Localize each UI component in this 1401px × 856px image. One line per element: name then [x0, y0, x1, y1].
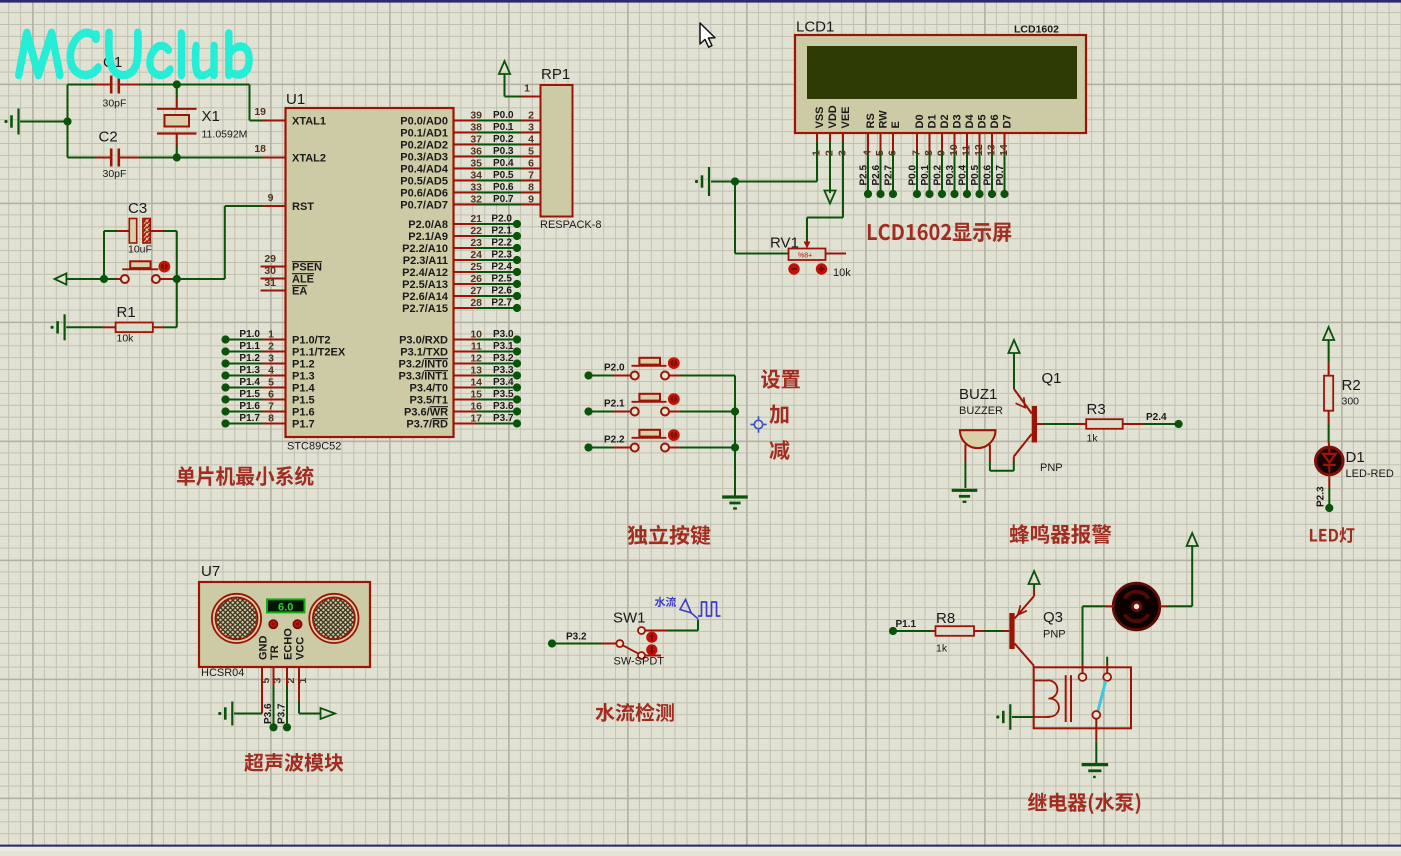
pin number 37 [470, 134, 482, 146]
pin name RST [292, 201, 314, 213]
pin number 34 [470, 170, 482, 182]
pulse generator 水流 (square wave icon) [680, 600, 721, 619]
pin number 38 [470, 122, 482, 134]
wire P2.3 [454, 259, 514, 261]
wire E to net P2.7 [892, 133, 894, 190]
value 1k (R3) [1087, 433, 1099, 445]
value 1k (R8) [936, 643, 948, 655]
svg-text:C2: C2 [99, 129, 118, 146]
wire P0.6 [454, 192, 541, 194]
pin name RS (LCD) [865, 113, 877, 128]
value 11.0592M [202, 129, 248, 141]
svg-text:P0.5/AD5: P0.5/AD5 [400, 176, 448, 188]
pin number 13 (LCD) [986, 144, 998, 156]
svg-text:P0.3/AD3: P0.3/AD3 [400, 152, 448, 164]
label PNP (Q1) [1040, 462, 1063, 474]
svg-text:P2.3: P2.3 [491, 250, 512, 261]
svg-text:ECHO: ECHO [283, 628, 295, 660]
wire D2 to net P0.2 [941, 133, 943, 190]
pin name P2.4/A12 [402, 267, 448, 279]
pin name P0.0/AD0 [400, 116, 448, 128]
node P2.4 [1175, 420, 1183, 428]
svg-text:D0: D0 [914, 114, 926, 128]
label RESPACK-8 [540, 219, 602, 231]
net label P1.0 [239, 329, 260, 340]
pin name VSS (LCD) [814, 106, 826, 128]
svg-text:10k: 10k [833, 267, 851, 279]
pin name D4 (LCD) [964, 114, 976, 129]
potentiometer RV1 [735, 182, 846, 261]
net label P2.0 (button) [604, 363, 625, 374]
svg-text:1k: 1k [936, 643, 948, 655]
svg-text:3: 3 [837, 150, 849, 156]
wire P3.2 to SW1 [552, 643, 616, 645]
svg-text:P3.2/: P3.2/ [399, 359, 425, 371]
net label P0.7 (LCD) [995, 164, 1006, 185]
svg-text:P1.7: P1.7 [239, 413, 260, 424]
svg-text:P0.5: P0.5 [493, 170, 514, 181]
svg-text:P3.5/T1: P3.5/T1 [410, 395, 449, 407]
svg-text:BUZZER: BUZZER [959, 405, 1003, 417]
pin name P3.7 [406, 419, 448, 431]
label BUZ1 [959, 386, 997, 403]
svg-text:P0.0: P0.0 [493, 110, 514, 121]
svg-text:EA: EA [292, 286, 307, 298]
pin number 2 [268, 341, 274, 353]
wire P1.1 [226, 351, 286, 353]
svg-text:VSS: VSS [814, 106, 826, 128]
wire reset to RST pin [177, 206, 263, 279]
pin name P0.5/AD5 [400, 176, 448, 188]
svg-text:D6: D6 [989, 114, 1001, 128]
pin number 35 [470, 158, 482, 170]
svg-text:6.0: 6.0 [278, 601, 293, 613]
relay contact bottom [1092, 711, 1100, 719]
svg-text:%8+: %8+ [798, 253, 812, 260]
svg-text:P0.0/AD0: P0.0/AD0 [400, 116, 448, 128]
node P2.6 (LCD) [876, 190, 884, 198]
pin number 10 (LCD) [948, 144, 960, 156]
svg-text:P2.2/A10: P2.2/A10 [402, 243, 448, 255]
svg-text:P0.4: P0.4 [958, 164, 969, 185]
svg-text:P2.3: P2.3 [1315, 486, 1326, 507]
wire P2.2 [454, 247, 514, 249]
pin number 25 [470, 261, 482, 273]
pin number 5 (LCD) [874, 150, 886, 156]
pin name PSEN [292, 262, 322, 274]
label BUZZER [959, 405, 1003, 417]
label PNP (Q3) [1043, 629, 1066, 641]
svg-text:HCSR04: HCSR04 [201, 667, 244, 679]
svg-text:PSEN: PSEN [292, 262, 322, 274]
pin number 9 (RP1) [528, 194, 534, 206]
svg-text:P1.5: P1.5 [292, 395, 315, 407]
svg-text:1: 1 [524, 83, 530, 95]
capacitor C2 [95, 149, 140, 167]
node P2.5 (LCD) [864, 190, 872, 198]
node P1.6 [221, 407, 229, 415]
svg-text:P3.3/: P3.3/ [399, 371, 425, 383]
svg-text:9: 9 [268, 192, 274, 204]
node P2.1 [513, 232, 521, 240]
section label 设置 [761, 369, 800, 389]
node P3.5 [513, 395, 521, 403]
pin XTAL1 stub [263, 117, 294, 125]
label R1 [117, 304, 136, 321]
wire P1.6 [226, 411, 286, 413]
net label P0.6 (LCD) [983, 164, 994, 185]
svg-text:P0.7/AD7: P0.7/AD7 [400, 200, 448, 212]
pin name P2.3/A11 [403, 255, 448, 267]
wire GND (U7) [234, 667, 262, 714]
svg-text:11: 11 [961, 145, 973, 156]
net label P1.3 [239, 365, 260, 376]
LCD1 screen [807, 46, 1077, 99]
svg-text:VDD: VDD [827, 105, 839, 128]
svg-text:P1.2: P1.2 [239, 353, 260, 364]
pin name P1.4 [292, 383, 316, 395]
net label P3.7 [493, 413, 514, 424]
node P2.3 [513, 256, 521, 264]
node junction X1 bottom [173, 153, 181, 161]
node junction reset right [173, 275, 181, 283]
svg-text:GND: GND [258, 636, 270, 661]
svg-text:P0.3: P0.3 [493, 146, 514, 157]
net label P1.7 [239, 413, 260, 424]
wire P2.4 [454, 271, 514, 273]
svg-text:SW1: SW1 [613, 610, 646, 627]
node P2.7 (LCD) [889, 190, 897, 198]
svg-text:XTAL1: XTAL1 [292, 116, 326, 128]
wire P3.6 [454, 411, 514, 413]
svg-text:VCC: VCC [295, 637, 307, 660]
svg-text:U7: U7 [201, 563, 220, 580]
net label P3.3 [493, 365, 514, 376]
node P3.7 [513, 419, 521, 427]
net label P0.4 (LCD) [958, 164, 969, 185]
svg-text:P0.1: P0.1 [493, 122, 514, 133]
pin number 23 [470, 237, 482, 249]
pin number 3 (U7) [272, 678, 284, 684]
svg-text:P1.7: P1.7 [292, 419, 315, 431]
svg-text:P0.7: P0.7 [493, 194, 514, 205]
net label P1.4 [239, 377, 260, 388]
node P3.6 [269, 723, 277, 731]
wire P0.4 [454, 168, 541, 170]
node P0.3 (LCD) [950, 190, 958, 198]
wire P3.1 [454, 351, 514, 353]
net label P3.2 [566, 632, 587, 643]
svg-text:P2.6: P2.6 [491, 286, 512, 297]
svg-text:30pF: 30pF [103, 98, 127, 110]
bottom window border line [0, 845, 1401, 847]
net label P0.0 [493, 110, 514, 121]
svg-text:P0.3: P0.3 [945, 164, 956, 185]
net label P0.6 [493, 182, 514, 193]
pin name P2.6/A14 [402, 291, 449, 303]
pin number 30 [264, 265, 276, 277]
section label LCD1602显示屏 [868, 223, 1011, 243]
svg-text:RD: RD [432, 419, 448, 431]
pin number 5 (U7) [260, 678, 272, 684]
pin XTAL2 stub [263, 157, 286, 159]
pin number 17 [470, 413, 482, 425]
pin name P1.5 [292, 395, 315, 407]
wire C3 right column [176, 231, 178, 279]
pin name D7 (LCD) [1002, 114, 1014, 128]
svg-text:P1.0/T2: P1.0/T2 [292, 335, 331, 347]
svg-text:12: 12 [973, 144, 985, 156]
LCD1 body [795, 35, 1086, 133]
pin number 2 (U7) [285, 678, 297, 684]
wire coil ground [1012, 716, 1034, 718]
pin name GND (U7) [258, 636, 270, 661]
svg-text:P3.0/RXD: P3.0/RXD [399, 335, 448, 347]
net label P3.4 [493, 377, 514, 388]
pin number 2 (LCD) [824, 150, 836, 156]
net label P3.1 [493, 341, 514, 352]
node P3.4 [513, 383, 521, 391]
node P0.6 (LCD) [988, 190, 996, 198]
net label P0.2 (LCD) [933, 164, 944, 185]
push button P2.0 [584, 358, 735, 380]
pin name P2.2/A10 [402, 243, 448, 255]
pin number 28 [470, 297, 482, 309]
svg-text:P0.1: P0.1 [920, 164, 931, 185]
wire D1 to P2.3 [1328, 475, 1330, 505]
pin name P1.7 [292, 419, 315, 431]
wire P1.7 [226, 423, 286, 425]
svg-text:ALE: ALE [292, 274, 314, 286]
pin PSEN stub [261, 266, 286, 268]
wire P3.3 [454, 375, 514, 377]
pin number 39 [470, 110, 482, 122]
pin number 27 [470, 285, 482, 297]
pin name P3.5 [410, 395, 449, 407]
wire TR to P3.6 [273, 667, 275, 724]
svg-text:D4: D4 [964, 114, 976, 129]
ground (LCD VSS) [695, 167, 709, 196]
svg-text:U1: U1 [286, 91, 305, 108]
svg-text:D2: D2 [939, 114, 951, 128]
net label P2.2 [491, 238, 512, 249]
label HCSR04 [201, 667, 244, 679]
section label 继电器(水泵) [1028, 792, 1140, 814]
wire P1.2 [226, 363, 286, 365]
svg-text:P2.5/A13: P2.5/A13 [402, 279, 448, 291]
node P3.1 [513, 347, 521, 355]
svg-text:6: 6 [887, 150, 899, 156]
svg-text:RS: RS [865, 113, 877, 128]
wire R2 to D1 [1328, 411, 1331, 448]
pin name P0.4/AD4 [400, 164, 449, 176]
pin number 16 [470, 401, 482, 413]
svg-text:P1.2: P1.2 [292, 359, 315, 371]
node P2.0 [513, 220, 521, 228]
transistor Q1 (PNP) [1014, 389, 1037, 461]
pin name P2.0/A8 [408, 219, 448, 231]
pin name P1.2 [292, 359, 315, 371]
ground (crystal circuit) [4, 109, 18, 135]
pin name P3.4 [410, 383, 449, 395]
svg-text:P3.4/T0: P3.4/T0 [410, 383, 449, 395]
pin number 5 [268, 377, 274, 389]
svg-text:RV1: RV1 [770, 235, 799, 252]
node junction reset left [100, 275, 108, 283]
toggle icon up (SW1) [646, 632, 657, 643]
svg-text:P0.6: P0.6 [983, 164, 994, 185]
push button P2.2 [584, 430, 735, 452]
svg-text:8: 8 [923, 150, 935, 156]
section label 水流检测 [595, 703, 673, 722]
pin name P2.1/A9 [408, 231, 448, 243]
relay coil [1034, 680, 1059, 717]
net label P2.2 (button) [604, 435, 625, 446]
svg-text:SW-SPDT: SW-SPDT [614, 656, 665, 668]
pin number 1 (U7) [297, 678, 309, 684]
node P2.4 [513, 268, 521, 276]
wire D4 to net P0.4 [966, 133, 968, 190]
crystal X1 [157, 85, 197, 158]
node junction left column [63, 85, 71, 158]
wire P0.7 [454, 204, 541, 206]
adjust icon plus (RV1) [816, 263, 827, 274]
right transducer (U7) [309, 594, 358, 643]
wire P0.3 [454, 156, 541, 158]
indicator dot 2 (U7) [293, 620, 301, 628]
wire C3 left column [103, 231, 105, 279]
net label P2.1 [491, 226, 512, 237]
left transducer (U7) [212, 594, 261, 643]
svg-text:P0.6: P0.6 [493, 182, 514, 193]
pin name RW (LCD) [878, 110, 890, 129]
wire P3.5 [454, 399, 514, 401]
top window border line [0, 0, 1401, 3]
svg-text:TR: TR [269, 645, 281, 660]
svg-text:P2.7: P2.7 [884, 164, 895, 185]
toggle icon down (SW1) [646, 644, 657, 655]
wire motor to relay contact [1083, 605, 1114, 607]
svg-text:P2.2: P2.2 [604, 435, 625, 446]
node P2.7 [513, 304, 521, 312]
svg-text:P2.7: P2.7 [491, 298, 512, 309]
net label P2.0 [491, 214, 512, 225]
pin number 33 [470, 182, 482, 194]
node P3.2 (SW1) [548, 639, 556, 647]
svg-text:P0.4: P0.4 [493, 158, 514, 169]
pin number 14 (LCD) [998, 144, 1010, 156]
pin name TR (U7) [269, 645, 281, 660]
svg-text:RST: RST [292, 201, 314, 213]
svg-text:30pF: 30pF [103, 168, 127, 180]
wire P2.7 [454, 307, 514, 309]
section label 蜂鸣器报警 [1010, 524, 1112, 544]
LED D1 [1316, 447, 1344, 475]
node P0.1 (LCD) [925, 190, 933, 198]
label SW1 [613, 610, 646, 627]
label R2 [1342, 377, 1361, 394]
power arrow (reset, pointing left) [55, 273, 104, 284]
svg-text:5: 5 [874, 150, 886, 156]
node P0.0 (LCD) [913, 190, 921, 198]
pin name VCC (U7) [295, 637, 307, 660]
svg-text:P2.5: P2.5 [491, 274, 512, 285]
label LED-RED [1346, 468, 1394, 480]
wire P2.1 [454, 235, 514, 237]
svg-text:P0.0: P0.0 [908, 164, 919, 185]
wire motor to VCC [1160, 546, 1192, 606]
svg-text:D3: D3 [952, 114, 964, 128]
svg-text:P2.0/A8: P2.0/A8 [408, 219, 448, 231]
pin number 11 (LCD) [961, 145, 973, 156]
button actuator icon (P2.2) [668, 429, 680, 441]
net label P0.3 (LCD) [945, 164, 956, 185]
pin name P1.6 [292, 407, 315, 419]
svg-text:C3: C3 [128, 200, 147, 217]
net label P0.5 (LCD) [970, 164, 981, 185]
distance display 6.0 (U7) [267, 599, 305, 613]
pin name E (LCD) [890, 121, 902, 128]
svg-text:D5: D5 [977, 114, 989, 128]
svg-text:X1: X1 [202, 108, 220, 125]
net label P1.5 [239, 389, 260, 400]
svg-text:2: 2 [824, 150, 836, 156]
pin name P3.1 [400, 347, 448, 359]
pin name D2 (LCD) [939, 114, 951, 128]
svg-text:P1.1/T2EX: P1.1/T2EX [292, 347, 346, 359]
pin name P3.3 [399, 371, 449, 383]
svg-text:P1.4: P1.4 [292, 383, 316, 395]
svg-text:13: 13 [986, 144, 998, 156]
net label P2.3 [1315, 486, 1326, 507]
svg-text:RP1: RP1 [541, 66, 570, 83]
pin ALE stub [261, 278, 286, 280]
wire VEE to RV1 wiper [807, 133, 843, 240]
svg-text:INT1: INT1 [424, 371, 448, 383]
svg-text:P2.4: P2.4 [1146, 412, 1167, 423]
pin number 29 [264, 253, 276, 265]
svg-text:RESPACK-8: RESPACK-8 [540, 219, 602, 231]
value 10k (RV1) [833, 267, 851, 279]
svg-text:4: 4 [862, 150, 874, 156]
svg-text:P2.4: P2.4 [491, 262, 512, 273]
svg-text:1: 1 [811, 150, 823, 156]
label Q1 [1042, 370, 1062, 387]
pin name XTAL2 [292, 153, 326, 165]
pin name P2.7/A15 [402, 303, 448, 315]
pin number 7 [268, 401, 274, 413]
pin number 22 [470, 225, 482, 237]
pin number 14 [470, 377, 482, 389]
power arrow (LCD VDD, pointing down) [824, 133, 835, 204]
power arrow (Q3 emitter) [1029, 571, 1040, 596]
pin number 12 (LCD) [973, 144, 985, 156]
ground (relay contact) [1082, 765, 1109, 777]
net label P0.4 [493, 158, 514, 169]
pin number 8 [268, 413, 274, 425]
node P0.4 (LCD) [963, 190, 971, 198]
label R8 [936, 610, 955, 627]
net label P0.1 (LCD) [920, 164, 931, 185]
indicator dot 1 (U7) [269, 620, 277, 628]
svg-text:LCD1602: LCD1602 [1014, 24, 1059, 36]
net label P0.5 [493, 170, 514, 181]
svg-text:R2: R2 [1342, 377, 1361, 394]
svg-text:STC89C52: STC89C52 [287, 441, 341, 453]
pin number 3 (RP1) [528, 122, 534, 134]
wire RW to net P2.6 [880, 133, 882, 190]
label R3 [1087, 401, 1106, 418]
